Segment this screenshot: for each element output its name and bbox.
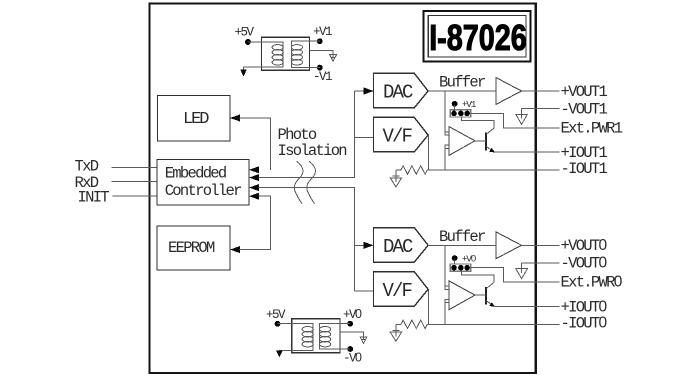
wire to V/F U7 <box>354 290 373 292</box>
arrow into LED <box>230 114 240 121</box>
isolation break squiggle 2 <box>307 161 316 203</box>
arrow into DAC U2 <box>364 87 374 94</box>
transistor Q1 <box>461 117 495 153</box>
T0 secondary ground <box>340 332 364 340</box>
svg-text:Buffer: Buffer <box>439 74 485 92</box>
svg-text:Embedded: Embedded <box>165 165 226 183</box>
svg-text:TxD: TxD <box>75 157 99 175</box>
wire +VOUT0 <box>522 244 560 246</box>
wire ch0 bus <box>259 188 355 291</box>
svg-text:V/F: V/F <box>383 280 413 302</box>
arrow into controller pin2 <box>249 174 259 181</box>
svg-text:-V1: -V1 <box>313 70 332 84</box>
arrow into EEPROM <box>230 246 240 253</box>
svg-text:Isolation: Isolation <box>278 142 347 160</box>
transistor Q0 <box>461 271 495 307</box>
arrow into DAC U6 <box>364 242 374 249</box>
wire DAC0 output rail <box>428 244 496 246</box>
power symbol -VOUT0 <box>516 263 528 279</box>
ground near R1 <box>390 170 401 187</box>
svg-text:-VOUT1: -VOUT1 <box>561 100 608 118</box>
wire LED to isolation <box>240 118 271 170</box>
DAC U6 <box>374 228 429 263</box>
dc-dc transformer T0 <box>292 319 340 353</box>
svg-text:Ext.PWR0: Ext.PWR0 <box>561 274 623 292</box>
T1 primary return arrow <box>244 67 262 70</box>
svg-text:+V1: +V1 <box>313 25 332 39</box>
svg-text:LED: LED <box>183 110 209 129</box>
wire Ext.PWR1 <box>471 113 560 128</box>
svg-text:+V1: +V1 <box>462 99 477 110</box>
wire Ext.PWR0 <box>471 268 560 283</box>
svg-text:+V0: +V0 <box>462 253 476 264</box>
svg-text:V/F: V/F <box>383 126 413 148</box>
node -V0 (T0) <box>347 346 353 352</box>
svg-text:I-87026: I-87026 <box>429 17 527 58</box>
svg-text:-V0: -V0 <box>343 351 362 366</box>
V/F U7 <box>374 272 429 307</box>
svg-text:-IOUT1: -IOUT1 <box>561 160 608 178</box>
wire +IOUT1 <box>495 151 560 153</box>
T1 secondary ground <box>310 50 334 58</box>
V/F U3 <box>374 117 429 151</box>
DAC U2 <box>374 73 429 108</box>
wire ch1 bus <box>259 91 355 178</box>
wire -VOUT1 <box>522 108 560 110</box>
node -V1 (T1) <box>317 65 323 71</box>
wire V/F0 tap <box>428 289 430 324</box>
main module box <box>150 4 536 374</box>
wire opamp0 plus input <box>444 245 446 286</box>
ground near R0 <box>390 324 401 341</box>
resistor R0 <box>396 320 559 328</box>
buffer amp U4 <box>496 78 522 105</box>
op-amp U5 <box>445 127 475 156</box>
wire opamp plus input <box>444 91 446 132</box>
svg-text:+5V: +5V <box>235 26 255 40</box>
arrow into controller pin1 <box>249 166 259 173</box>
svg-text:+5V: +5V <box>266 308 286 322</box>
wire RxD <box>112 180 158 182</box>
arrow into controller pin3 <box>249 184 259 191</box>
T0 primary return arrow <box>279 350 291 351</box>
wire +IOUT0 <box>495 306 560 308</box>
power symbol -VOUT1 <box>516 109 528 125</box>
arrow into controller pin4 <box>249 193 259 200</box>
wire opamp0 minus input <box>444 303 446 325</box>
svg-text:-VOUT0: -VOUT0 <box>561 255 608 273</box>
wire to V/F U3 <box>354 136 373 138</box>
dc-dc transformer T1 <box>262 37 310 70</box>
wire EEPROM to controller <box>240 196 271 249</box>
svg-text:Ext.PWR1: Ext.PWR1 <box>561 119 623 137</box>
wire -VOUT0 <box>522 262 560 264</box>
svg-text:EEPROM: EEPROM <box>168 239 215 257</box>
jumper JP1 <box>450 99 477 117</box>
svg-text:Controller: Controller <box>165 182 241 200</box>
svg-text:+VOUT1: +VOUT1 <box>561 83 608 101</box>
op-amp U9 <box>445 281 475 310</box>
svg-text:+VOUT0: +VOUT0 <box>561 237 608 255</box>
jumper JP0 <box>450 253 476 271</box>
resistor R1 <box>396 166 559 174</box>
wire DAC1 output rail <box>428 90 496 92</box>
svg-text:DAC: DAC <box>383 236 413 258</box>
wire TxD <box>112 166 158 168</box>
svg-text:+V0: +V0 <box>343 307 362 322</box>
LED block <box>158 96 231 142</box>
wire to DAC U6 <box>354 244 364 246</box>
wire opamp minus input <box>444 148 446 170</box>
svg-text:-IOUT0: -IOUT0 <box>561 314 608 332</box>
isolation break squiggle 1 <box>294 161 303 203</box>
wire INIT <box>112 195 157 197</box>
svg-text:INIT: INIT <box>78 188 110 206</box>
wire +VOUT1 <box>522 90 560 92</box>
title box I-87026 <box>423 11 530 61</box>
photo isolation label <box>278 126 347 160</box>
svg-text:Buffer: Buffer <box>439 228 485 246</box>
embedded controller U1 <box>157 160 249 206</box>
EEPROM block <box>157 226 230 270</box>
svg-text:DAC: DAC <box>383 82 413 104</box>
buffer amp U8 <box>496 232 522 259</box>
wire V/F1 tap <box>428 135 430 170</box>
wire to DAC U2 <box>354 90 364 92</box>
